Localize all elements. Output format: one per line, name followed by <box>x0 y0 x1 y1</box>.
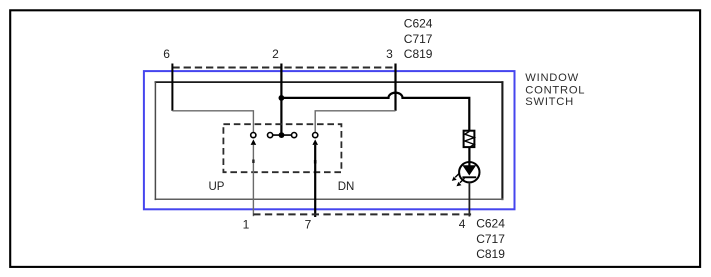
DN contact <box>313 133 318 138</box>
svg-text:C717: C717 <box>404 32 433 46</box>
top harness dashed line <box>172 67 395 69</box>
svg-text:C819: C819 <box>404 47 433 61</box>
svg-text:6: 6 <box>163 47 170 61</box>
switch S1 dashed box <box>223 124 341 172</box>
pin 2 <box>272 47 281 135</box>
svg-text:C624: C624 <box>476 217 505 231</box>
svg-text:C819: C819 <box>476 247 505 261</box>
resistor R1 <box>464 131 475 148</box>
svg-text:DN: DN <box>338 181 355 193</box>
svg-text:C717: C717 <box>476 232 505 246</box>
UP movable contact arrow (pin 1) <box>251 139 257 216</box>
svg-text:UP: UP <box>209 181 225 193</box>
wire resistor to LED <box>468 148 470 166</box>
switch common contacts (pin 2 wiper) <box>268 132 297 138</box>
wire pin3 to DN contact <box>315 111 395 132</box>
svg-text:3: 3 <box>386 47 393 61</box>
connector labels C624 C717 C819 (top) <box>404 17 433 62</box>
wire pin2 bus to resistor (with hop over pin3) <box>281 93 469 131</box>
pin 3 <box>386 47 395 111</box>
svg-text:C624: C624 <box>404 17 433 31</box>
svg-text:2: 2 <box>272 47 279 61</box>
wire pin6 to UP contact <box>172 111 253 132</box>
UP contact <box>251 133 256 138</box>
connector labels C624 C717 C819 (bottom) <box>476 217 505 262</box>
svg-text:7: 7 <box>305 218 312 232</box>
svg-text:1: 1 <box>243 218 250 232</box>
svg-text:WINDOW: WINDOW <box>525 72 579 84</box>
svg-text:4: 4 <box>459 217 466 231</box>
bottom harness dashed line <box>253 213 474 215</box>
window control switch boundary (blue box) <box>144 71 515 209</box>
DN movable contact arrow (pin 7) <box>312 139 318 217</box>
node junction on pin 2 bus <box>279 95 285 101</box>
label WINDOW CONTROL SWITCH <box>525 72 585 108</box>
pin 6 <box>163 47 172 111</box>
LED indicator <box>452 162 480 186</box>
svg-text:SWITCH: SWITCH <box>525 96 574 108</box>
switch internal outline box <box>155 81 504 200</box>
svg-text:CONTROL: CONTROL <box>525 84 585 96</box>
wire LED to pin 4 <box>468 182 470 216</box>
